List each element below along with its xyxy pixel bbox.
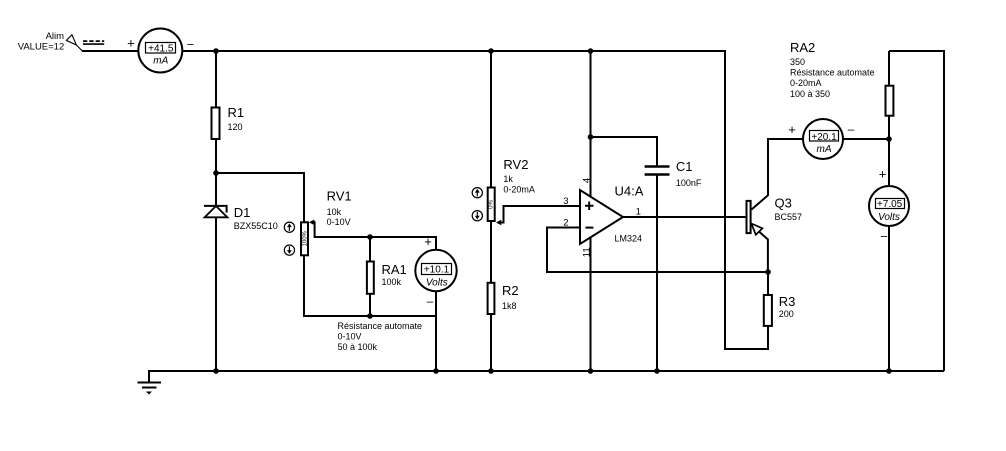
ammeter +41.5 mA [138,29,182,73]
capacitor C1 [645,167,670,175]
svg-text:120: 120 [228,122,243,132]
resistor RA2 [886,86,894,116]
wire voltmeter1 column [435,236,437,371]
svg-text:350: 350 [790,57,805,67]
wire to C1 top [591,137,658,167]
svg-text:2: 2 [563,217,568,228]
svg-text:RV2: RV2 [503,157,528,172]
svg-text:100k: 100k [382,277,402,287]
wire meter2 to node [843,138,889,140]
wire emitter node to R3 [767,272,769,350]
svg-text:Résistance automate: Résistance automate [338,321,423,331]
svg-text:+7.05: +7.05 [877,199,903,210]
RV2 spin down control [472,211,482,221]
svg-text:–: – [848,124,855,136]
node emitter/R3/feedback [765,269,771,275]
node pin4/C1 [588,134,594,140]
potentiometer RV1 [301,220,314,256]
wire op-amp output to Q3 base [623,216,747,218]
label Resistance automate 0-10V block [338,321,423,352]
RV1 spin down control [284,245,294,255]
node voltmeter1 ground [433,368,439,374]
wire pin11 [590,237,592,371]
svg-text:+: + [127,36,135,51]
svg-text:Q3: Q3 [775,195,792,210]
RV1 spin up control [284,222,294,232]
svg-text:0-10V: 0-10V [327,217,351,227]
svg-text:U4:A: U4:A [615,184,644,199]
svg-text:3: 3 [563,196,568,207]
svg-text:0%: 0% [488,199,494,208]
svg-text:100nF: 100nF [676,178,702,188]
transistor Q3 [747,201,763,235]
svg-text:LM324: LM324 [615,234,643,244]
wire bottom bus and ground stub [149,371,944,383]
svg-text:VALUE=12: VALUE=12 [18,42,65,53]
svg-text:200: 200 [779,309,794,319]
svg-text:+20.1: +20.1 [811,132,837,143]
svg-text:mA: mA [817,144,832,155]
svg-text:0-20mA: 0-20mA [790,78,822,88]
ground [138,383,162,395]
svg-text:RA2: RA2 [790,40,815,55]
svg-text:100 à 350: 100 à 350 [790,89,830,99]
node R2 ground [488,368,494,374]
wire source to ammeter [82,50,139,52]
resistor RA1 [367,262,374,294]
svg-text:50 à 100k: 50 à 100k [338,342,378,352]
wire left rail x=216 [215,51,217,371]
resistor R3 [764,295,772,326]
svg-text:RA1: RA1 [382,262,407,277]
zener diode D1 [204,205,228,217]
svg-text:+: + [788,122,796,137]
node RV2 top [488,48,494,54]
resistor R1 [212,108,220,140]
wire RV2 wiper to pin3 [500,206,580,223]
svg-text:+: + [879,167,887,182]
node R1/D1 [213,170,219,176]
svg-text:4: 4 [581,178,592,183]
svg-text:mA: mA [153,55,168,66]
svg-text:R2: R2 [502,283,519,298]
svg-text:1k8: 1k8 [502,301,517,311]
svg-text:1k: 1k [503,174,513,184]
svg-text:–: – [427,296,434,308]
wire RA1 branch [369,237,371,316]
node voltmeter2 ground [886,368,892,374]
svg-text:0-20mA: 0-20mA [503,184,535,194]
node meter2/RA2/voltmeter2 [886,136,892,142]
svg-text:100%: 100% [303,230,309,246]
svg-text:Résistance automate: Résistance automate [790,68,875,78]
svg-text:–: – [187,38,194,50]
op-amp U4:A [580,190,623,244]
voltmeter +10.1 Volts [415,250,456,291]
svg-text:C1: C1 [676,159,693,174]
node pin11 ground [588,368,594,374]
wire pin4 [590,51,592,198]
svg-text:+: + [424,234,432,249]
ammeter +20.1 mA [803,119,843,159]
svg-text:11: 11 [581,247,592,257]
node RA1 top [367,234,373,240]
node ammeter/R1 [213,48,219,54]
svg-text:1: 1 [636,206,641,217]
wire top right segment and right rail [889,51,944,371]
svg-text:+41.5: +41.5 [148,43,174,54]
node left rail ground [213,368,219,374]
voltmeter +7.05 Volts [869,186,909,226]
svg-text:10k: 10k [327,207,342,217]
svg-text:BZX55C10: BZX55C10 [234,221,278,231]
node C1 ground [654,368,660,374]
resistor R2 [488,283,495,314]
svg-text:RV1: RV1 [327,189,352,204]
wire RA2 voltmeter2 column [888,51,890,371]
node RA1 bottom [367,313,373,319]
wire Q3 emitter to feedback node [759,232,768,273]
junction node dots [213,48,892,374]
potentiometer RV2 [488,188,502,226]
wire node to RV1 top and RV1 bottom to voltmeter [216,173,436,316]
svg-text:–: – [881,231,888,243]
wire pin2 stub and feedback loop [547,228,768,273]
svg-text:Volts: Volts [426,277,448,288]
svg-text:Volts: Volts [878,212,900,223]
node pin4 top [588,48,594,54]
wire RV2 R2 column [490,51,492,371]
wire C1 bottom lead [656,174,658,371]
RV2 spin up control [472,188,482,198]
wire RV1 wiper [312,222,436,237]
power source Alim pin [66,35,104,51]
svg-text:+10.1: +10.1 [424,265,450,276]
svg-text:BC557: BC557 [775,212,803,222]
svg-text:0-10V: 0-10V [338,331,362,341]
svg-text:R1: R1 [228,105,245,120]
wire top bus from ammeter to right corner down to R3 bottom [182,51,768,349]
wire Q3 collector to meter [752,139,804,210]
svg-text:D1: D1 [234,205,251,220]
svg-text:R3: R3 [779,294,796,309]
